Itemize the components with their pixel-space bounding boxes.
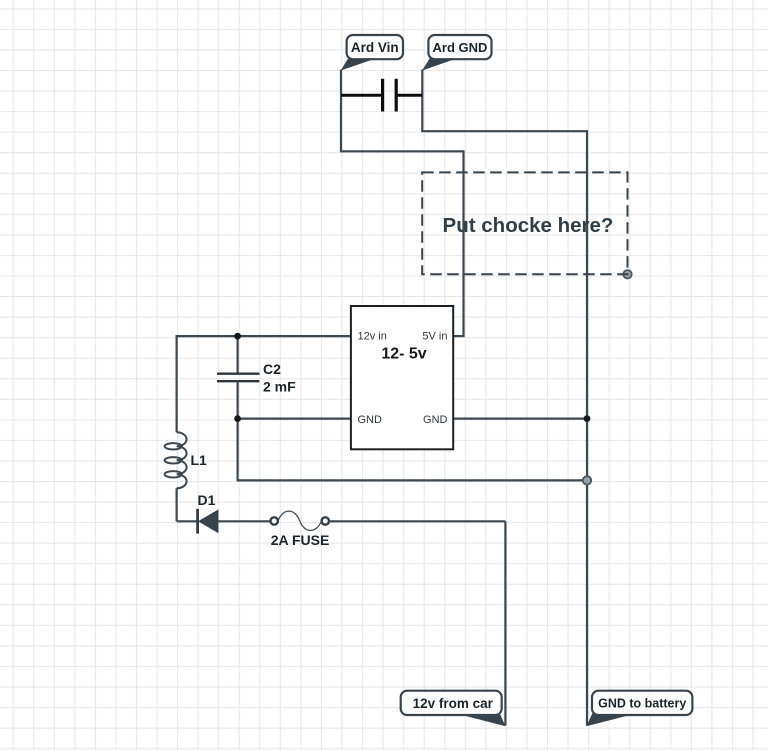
node Ard Vin flag <box>341 35 403 71</box>
svg-text:5V in: 5V in <box>422 331 447 343</box>
open endpoint <box>623 270 631 278</box>
svg-text:D1: D1 <box>198 492 216 508</box>
wire <box>586 130 588 725</box>
wire <box>454 418 587 420</box>
svg-text:GND: GND <box>423 414 448 426</box>
converter module 12-5v <box>351 306 453 449</box>
node Ard GND flag <box>422 35 492 71</box>
wire <box>421 130 587 132</box>
svg-text:2 mF: 2 mF <box>263 379 296 395</box>
wire <box>176 335 178 432</box>
wire <box>340 150 464 152</box>
svg-text:C2: C2 <box>263 361 281 377</box>
wire <box>218 520 271 522</box>
junction <box>234 333 241 340</box>
fuse F1 <box>271 511 329 530</box>
annotation box "Put chocke here?" <box>422 172 627 274</box>
wire <box>504 521 506 725</box>
wire <box>177 335 351 337</box>
wire <box>340 70 342 152</box>
svg-text:GND to battery: GND to battery <box>598 697 686 711</box>
svg-text:Ard GND: Ard GND <box>433 40 488 55</box>
wire <box>176 488 178 521</box>
wire <box>237 336 239 374</box>
svg-text:GND: GND <box>358 414 383 426</box>
wire <box>238 418 351 420</box>
wire <box>237 381 239 480</box>
wire <box>237 479 588 481</box>
wire <box>421 70 423 132</box>
junction <box>234 415 241 422</box>
open endpoint <box>583 476 591 484</box>
svg-text:L1: L1 <box>191 452 208 468</box>
inductor L1 <box>165 432 187 488</box>
svg-text:2A FUSE: 2A FUSE <box>271 532 330 548</box>
svg-text:12v from car: 12v from car <box>413 696 494 711</box>
node 12v from car flag <box>401 691 506 727</box>
capacitor (between Ard Vin and Ard GND) <box>341 79 422 112</box>
junction <box>584 415 591 422</box>
wire <box>329 520 505 522</box>
svg-text:Ard Vin: Ard Vin <box>351 40 399 55</box>
wire <box>453 335 465 337</box>
capacitor C2 <box>217 374 259 382</box>
diode D1 <box>198 509 218 534</box>
svg-text:12v in: 12v in <box>358 331 387 343</box>
svg-text:12- 5v: 12- 5v <box>381 346 426 363</box>
svg-text:Put chocke here?: Put chocke here? <box>443 214 614 237</box>
node GND to battery flag <box>586 691 692 727</box>
wire <box>177 520 198 522</box>
wire <box>462 150 464 336</box>
